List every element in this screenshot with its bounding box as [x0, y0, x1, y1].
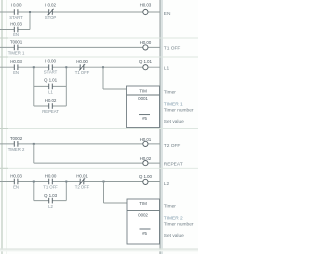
contact I0.02 STOP (NC): [45, 3, 57, 21]
svg-text:Timer: Timer: [164, 90, 176, 96]
contact H0.03 EN (NO): [10, 59, 22, 75]
svg-text:H0.02: H0.02: [140, 156, 152, 161]
svg-text:REPEAT: REPEAT: [42, 109, 59, 114]
svg-text:H0.00: H0.00: [45, 174, 57, 179]
coil H0.02 REPEAT: [140, 156, 183, 167]
svg-text:H0.03: H0.03: [10, 59, 22, 64]
svg-text:0001: 0001: [138, 96, 148, 101]
svg-text:#5: #5: [142, 231, 147, 236]
svg-text:T1 OFF: T1 OFF: [164, 46, 181, 52]
contact H0.02 REPEAT (NO): [42, 98, 59, 114]
svg-text:Q 1.01: Q 1.01: [44, 77, 58, 82]
svg-text:H0.00: H0.00: [140, 40, 152, 45]
svg-text:T1 OFF: T1 OFF: [43, 185, 58, 190]
timer TIM 0001 box: [127, 86, 160, 128]
svg-text:TIMER 1: TIMER 1: [164, 102, 183, 108]
wire rung4 TIM drop: [103, 182, 105, 204]
contact H0.03 EN (NO, holding): [10, 21, 22, 37]
wire rung0 branch: [0, 29, 30, 31]
svg-text:L1: L1: [164, 65, 170, 71]
wire rung0 main: [0, 11, 160, 13]
svg-text:H0.03: H0.03: [10, 174, 22, 179]
wire rung4 branch left vertical: [33, 182, 35, 201]
coil Q1.01 L1: [139, 59, 170, 71]
svg-text:H0.01: H0.01: [140, 137, 152, 142]
node rung4 branch right: [65, 181, 67, 183]
node rung2 branch left: [33, 66, 35, 68]
svg-text:H0.03: H0.03: [10, 21, 22, 26]
wire rung2 TIM drop: [102, 67, 104, 89]
wire rung2 branch left vertical: [33, 67, 35, 106]
svg-text:T2 OFF: T2 OFF: [164, 143, 181, 149]
rung separator 1: [0, 37, 198, 39]
node rung2 branch right: [65, 66, 67, 68]
wire rung4 main: [0, 181, 160, 183]
svg-text:H0.00: H0.00: [76, 59, 88, 64]
svg-text:T2 OFF: T2 OFF: [75, 184, 90, 189]
wire rung3 branch drop: [33, 144, 35, 163]
node rung4 branch left: [33, 181, 35, 183]
contact H0.00 T1 OFF (NC): [75, 59, 90, 75]
contact H0.00 T1 OFF (NO): [43, 174, 58, 190]
wire rung4 branch right vertical: [65, 182, 67, 201]
contact Q1.01 L1 (NO, holding): [44, 77, 58, 94]
svg-text:0002: 0002: [138, 213, 148, 218]
svg-text:REPEAT: REPEAT: [164, 161, 183, 167]
svg-text:TIMER 2: TIMER 2: [164, 216, 183, 222]
svg-text:TIMER 2: TIMER 2: [8, 147, 25, 152]
coil H0.01 T2 OFF: [140, 137, 181, 149]
contact I0.00 START (NO): [44, 59, 58, 75]
svg-text:EN: EN: [13, 184, 19, 189]
svg-text:Q 1.01: Q 1.01: [139, 59, 153, 64]
svg-text:Timer number: Timer number: [164, 108, 194, 114]
svg-text:TIMER 1: TIMER 1: [8, 50, 25, 55]
rung separator 2: [0, 56, 198, 58]
svg-text:EN: EN: [13, 70, 19, 75]
left power rail: [1, 0, 3, 254]
node rung0 branch junction: [29, 11, 31, 13]
svg-text:L2: L2: [48, 204, 53, 209]
coil Q1.00 L2: [139, 174, 170, 187]
timer TIM 0002 box: [127, 199, 160, 244]
svg-text:TIM: TIM: [139, 201, 147, 206]
svg-text:H0.01: H0.01: [76, 174, 88, 179]
right power rail: [159, 0, 161, 254]
svg-text:Set value: Set value: [164, 233, 184, 239]
contact H0.01 T2 OFF (NC): [75, 174, 90, 190]
svg-text:I 0.00: I 0.00: [45, 59, 56, 64]
node rung2 TIM tap: [102, 66, 104, 68]
svg-text:Set value: Set value: [164, 119, 184, 125]
svg-text:L1: L1: [48, 89, 53, 94]
node rung3 branch: [33, 143, 35, 145]
svg-text:H0.02: H0.02: [45, 98, 57, 103]
svg-text:EN: EN: [13, 32, 19, 37]
right power rail band: [160, 0, 163, 254]
left margin guide: [6, 0, 8, 254]
wire rung2 branch right vertical: [65, 67, 67, 106]
contact T0001 TIMER 1 (NO): [8, 40, 25, 56]
contact H0.03 EN (NO): [10, 174, 22, 190]
contact T0002 TIMER 2 (NO): [8, 136, 25, 152]
coil H0.03 EN: [140, 3, 171, 17]
svg-text:I 0.02: I 0.02: [45, 3, 56, 8]
svg-text:Timer number: Timer number: [164, 222, 194, 228]
wire rung1 main: [0, 46, 160, 48]
rung separator 3: [0, 128, 198, 130]
svg-text:T0001: T0001: [10, 40, 23, 45]
wire rung3 branch row: [34, 162, 160, 164]
svg-text:Q 1.00: Q 1.00: [139, 174, 153, 179]
wire rung2 branch row2: [34, 105, 67, 107]
svg-text:START: START: [44, 70, 58, 75]
svg-text:L2: L2: [164, 181, 170, 187]
svg-text:Q 1.03: Q 1.03: [44, 193, 58, 198]
svg-text:STOP: STOP: [45, 15, 57, 20]
coil H0.00 T1 OFF: [140, 40, 181, 52]
svg-text:#5: #5: [142, 116, 147, 121]
svg-text:EN: EN: [164, 11, 171, 17]
wire rung2 main: [0, 66, 160, 68]
node rung4 TIM tap: [103, 181, 105, 183]
svg-text:TIM: TIM: [139, 88, 147, 93]
svg-text:T1 OFF: T1 OFF: [75, 70, 90, 75]
svg-text:T0002: T0002: [10, 136, 23, 141]
wire rung3 main: [0, 143, 160, 145]
svg-text:Timer: Timer: [164, 204, 176, 210]
contact Q1.03 L2 (NO, holding): [44, 193, 58, 209]
wire rung2 branch row1: [34, 85, 67, 87]
svg-text:I 0.00: I 0.00: [11, 3, 22, 8]
svg-text:H0.03: H0.03: [140, 3, 152, 8]
contact I0.00 START (NO): [9, 3, 23, 21]
svg-text:START: START: [9, 15, 23, 20]
rung separator 4: [0, 167, 198, 169]
wire rung4 branch row: [34, 200, 67, 202]
bottom separator band: [0, 248, 198, 249]
